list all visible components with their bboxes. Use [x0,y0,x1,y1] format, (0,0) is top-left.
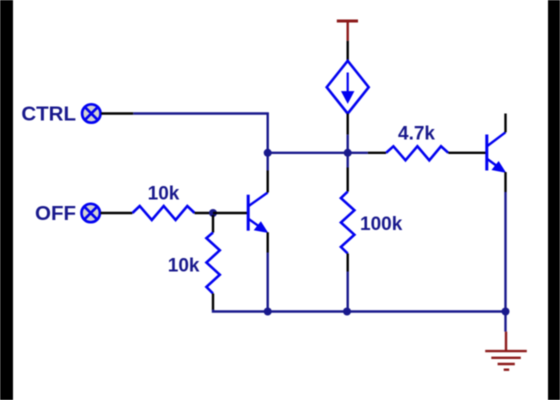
wire I1 to node C [347,135,349,153]
node E junction dot (R2 bottom/bottom rail) [343,308,351,316]
node F junction dot (bottom rail/Q2 emitter/ground) [502,308,510,316]
wire Q1 collector to node A [267,153,269,171]
pin Q2 emitter lead (black) [504,172,506,192]
svg-text:OFF: OFF [35,202,76,225]
wire node C toward R3 [348,152,368,154]
node C junction dot (current source/100k/4.7k) [344,149,352,157]
node B junction dot at R1/R2/Q1 [209,209,217,217]
pin Q2 collector lead up, open stub (black) [504,114,506,133]
left black border bar [0,0,13,400]
right black border bar [548,0,560,400]
transistor Q2 NPN [487,132,506,172]
wire bottom rail [213,310,506,312]
wire node F down to ground [504,312,506,332]
pin I1 bottom lead (black) [347,114,349,135]
pin R1 right lead (black) [195,212,213,214]
resistor R2 100k vertical zigzag [341,192,355,254]
node D junction dot (Q1 emitter/bottom rail) [264,308,272,316]
svg-text:10k: 10k [148,184,180,205]
resistor R1 10k horizontal zigzag [132,206,194,220]
wire CTRL horizontal [133,112,268,114]
pin current source I1 top lead (black) [347,41,349,61]
pin R2 top lead (black) [347,168,349,192]
wire mid horizontal node A to node C [268,152,348,154]
port OFF [82,204,100,222]
resistor R4 10k vertical zigzag [206,233,219,294]
pin R3 left lead (black) [368,152,386,154]
transistor Q1 NPN [248,193,268,233]
svg-text:10k: 10k [168,256,200,277]
power symbol VCC (dark red T-bar) [337,20,358,41]
wire CTRL vertical down to node A [267,113,269,153]
wire R2 to bottom rail [347,272,349,312]
pin Q1 collector lead (black) [267,171,269,193]
pin R4 bottom lead (black) [212,294,214,311]
resistor R3 4.7k horizontal zigzag [386,146,448,160]
wire Q2 emitter down to node F [504,192,506,312]
pin R3 right lead + Q2 base lead (black) [448,152,487,154]
pin Q1 base lead (black) [213,212,248,214]
wire node C down to R2 [347,153,349,168]
port CTRL [82,104,100,122]
svg-text:CTRL: CTRL [21,103,76,126]
wire Q1 emitter down to bottom rail [267,253,269,312]
svg-text:4.7k: 4.7k [398,124,435,145]
pin OFF port lead + R1 left lead (black) [101,212,133,214]
node A junction dot (CTRL/Q1/mid wire) [264,149,272,157]
current source I1 diamond with down arrow [327,61,369,114]
svg-text:100k: 100k [360,214,403,235]
pin Q1 emitter lead (black) [267,232,269,252]
pin R2 bottom lead (black) [347,254,349,272]
pin CTRL port lead (black) [101,112,133,114]
ground symbol (dark red) [485,332,527,370]
pin R4 top lead (black) [212,215,214,233]
